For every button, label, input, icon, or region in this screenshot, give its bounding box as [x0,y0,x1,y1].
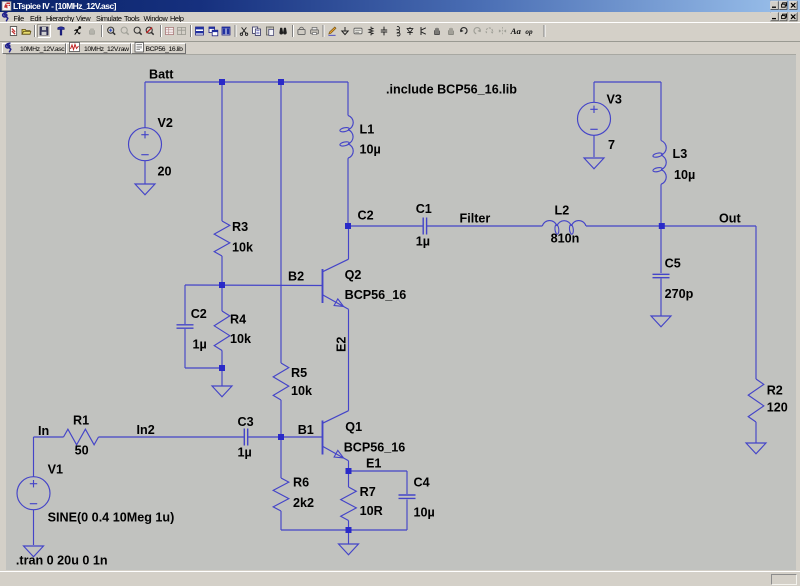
svg-text:7: 7 [608,138,615,152]
svg-text:C2: C2 [358,209,374,223]
svg-text:Out: Out [719,212,741,226]
svg-text:10k: 10k [230,332,252,346]
svg-text:E1: E1 [366,456,381,470]
svg-text:L2: L2 [555,204,570,218]
svg-text:120: 120 [767,400,788,414]
svg-text:C4: C4 [414,476,430,490]
svg-text:C1: C1 [416,202,432,216]
svg-text:R3: R3 [232,220,248,234]
svg-text:.tran 0 20u 0 1n: .tran 0 20u 0 1n [16,553,108,567]
svg-text:R6: R6 [293,476,309,490]
svg-text:L1: L1 [360,122,375,136]
svg-text:Batt: Batt [149,67,174,81]
svg-text:V2: V2 [158,116,173,130]
svg-text:V3: V3 [607,93,622,107]
svg-text:270p: 270p [665,287,694,301]
svg-text:BCP56_16: BCP56_16 [345,288,407,302]
svg-text:10µ: 10µ [414,506,435,520]
svg-text:810n: 810n [551,232,580,246]
svg-text:2k2: 2k2 [293,496,314,510]
svg-text:BCP56_16: BCP56_16 [344,441,406,455]
svg-text:R1: R1 [73,414,89,428]
svg-text:LT: LT [3,5,10,11]
svg-text:B2: B2 [288,270,304,284]
svg-text:R5: R5 [291,366,307,380]
svg-text:Filter: Filter [460,212,491,226]
svg-text:B1: B1 [298,423,314,437]
svg-text:C3: C3 [238,415,254,429]
svg-text:op: op [525,28,533,36]
svg-text:10µ: 10µ [674,168,695,182]
svg-text:L3: L3 [673,147,688,161]
svg-text:10R: 10R [360,504,383,518]
svg-text:R4: R4 [230,312,246,326]
svg-text:C2: C2 [191,307,207,321]
svg-text:C5: C5 [665,257,681,271]
svg-text:R7: R7 [360,485,376,499]
svg-text:10k: 10k [291,384,313,398]
svg-text:E2: E2 [335,337,349,352]
svg-text:10k: 10k [232,241,254,255]
svg-text:Q2: Q2 [345,268,362,282]
svg-text:20: 20 [158,165,172,179]
svg-text:10µ: 10µ [360,143,381,157]
svg-text:In2: In2 [137,423,155,437]
svg-text:1µ: 1µ [238,445,252,459]
svg-text:1µ: 1µ [416,235,430,249]
svg-text:In: In [38,424,49,438]
svg-text:1µ: 1µ [193,338,207,352]
svg-text:.include BCP56_16.lib: .include BCP56_16.lib [386,83,517,97]
svg-text:Aa: Aa [510,26,522,36]
svg-text:Q1: Q1 [345,420,362,434]
svg-text:R2: R2 [767,383,783,397]
svg-text:50: 50 [75,444,89,458]
svg-text:V1: V1 [48,463,63,477]
svg-text:SINE(0 0.4 10Meg 1u): SINE(0 0.4 10Meg 1u) [48,510,175,524]
